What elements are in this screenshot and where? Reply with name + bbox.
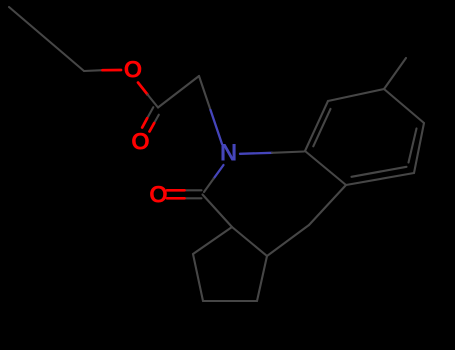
wire benzene inner double V3-V4 bbox=[409, 129, 417, 163]
wire N-aryl blue half bbox=[240, 153, 272, 154]
wire benzene inner double V6-V1 bbox=[313, 109, 330, 146]
wire C-CH2 bbox=[158, 76, 199, 108]
svg-text:O: O bbox=[149, 182, 168, 209]
wire amideC-C1 bbox=[203, 195, 233, 228]
wire cyclopentane C2-C3 bbox=[257, 256, 267, 301]
wire methyl on V5 bbox=[384, 58, 406, 89]
wire benzene V3-V4 bbox=[414, 123, 424, 173]
svg-text:O: O bbox=[131, 129, 150, 156]
wire benzene V1-V2 bbox=[305, 151, 346, 185]
wire ester C=O double left line red half bbox=[142, 118, 147, 127]
svg-text:N: N bbox=[220, 140, 237, 167]
wire ethyl CH3-CH2 bbox=[9, 7, 84, 71]
wire CH2-N gray half bbox=[199, 76, 211, 110]
wire benzene inner double V2-V3 bbox=[352, 167, 407, 177]
wire benzene V5-V6 bbox=[328, 89, 384, 101]
wire CH2-N blue half bbox=[211, 110, 223, 144]
wire ester C=O double right line gray half bbox=[154, 115, 159, 123]
wire cyclopentane C3-C4 bbox=[203, 300, 257, 302]
wire cyclopentane C5-C1 bbox=[193, 227, 232, 254]
wire benzene V6-V1 bbox=[305, 101, 328, 151]
wire ester C=O double right line red half bbox=[150, 123, 155, 132]
wire N-aryl gray half bbox=[272, 152, 304, 153]
svg-text:O: O bbox=[124, 57, 143, 84]
wire N-amideC gray half bbox=[204, 179, 214, 193]
wire O-C red half bbox=[138, 83, 148, 95]
wire amide C=O double top red half bbox=[167, 189, 185, 192]
wire C2-CH2 bridge bbox=[267, 225, 309, 256]
wire amide C=O double top gray half bbox=[185, 189, 202, 191]
wire CH2-O red half bbox=[103, 69, 122, 72]
wire cyclopentane C1-C2 bbox=[232, 227, 267, 256]
wire benzene V2-V3 bbox=[346, 173, 414, 185]
wire N-amideC blue half bbox=[214, 165, 224, 179]
wire CH2 bridge-V2 bbox=[309, 185, 346, 225]
wire amide C=O double bottom gray half bbox=[185, 197, 202, 199]
wire cyclopentane C4-C5 bbox=[193, 254, 203, 301]
wire amide C=O double bottom red half bbox=[167, 197, 185, 200]
wire ester C=O double left line gray half bbox=[147, 107, 153, 118]
wire O-C gray half bbox=[148, 95, 159, 108]
wire CH2-O gray half bbox=[84, 69, 103, 72]
wire benzene V4-V5 bbox=[384, 89, 424, 123]
